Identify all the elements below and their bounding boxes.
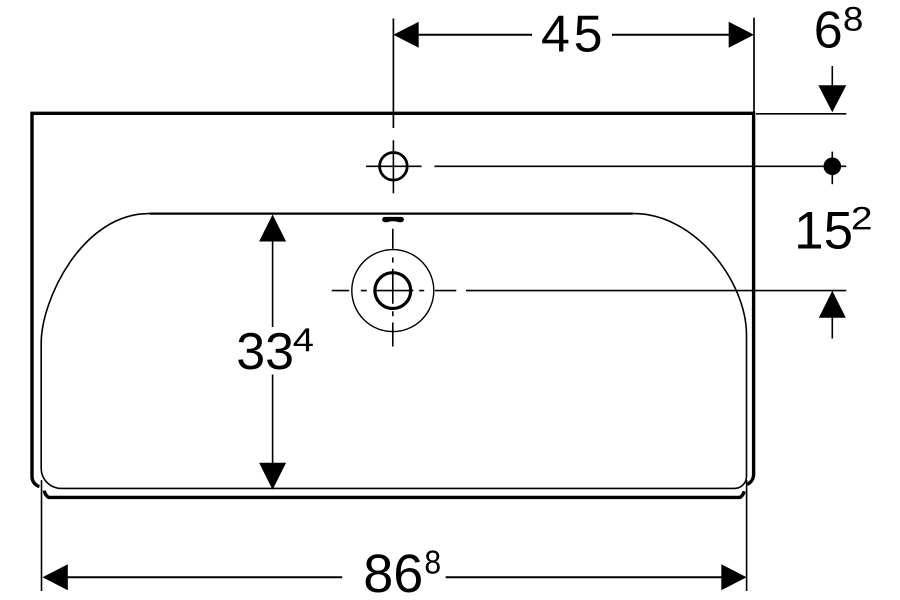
dim 33_4: down arrow — [259, 463, 286, 490]
dim 86_8: right extension line — [746, 480, 748, 591]
svg-text:15: 15 — [794, 201, 853, 260]
dim 6_8: arrow tail — [831, 66, 833, 87]
faucet hole — [380, 153, 408, 181]
basin outline — [41, 214, 746, 489]
sink outer rim: bottom edge — [44, 491, 744, 498]
drain centerline vertical — [392, 229, 394, 347]
faucet crosshair horizontal — [366, 165, 422, 167]
dim 86_8: left arrow — [43, 564, 68, 590]
dim 6_8: top extension line — [756, 113, 846, 115]
dim 33_4: up arrow — [259, 215, 286, 242]
drain outer circle — [352, 250, 434, 332]
faucet crosshair vertical — [392, 140, 394, 193]
dim 45: dimension line — [419, 34, 729, 36]
dim 15_2: dimension line through dot — [831, 152, 833, 185]
dim 86_8: dimension line — [68, 576, 722, 578]
svg-text:33: 33 — [236, 323, 294, 381]
svg-text:6: 6 — [814, 1, 843, 59]
dim 15_2: arrow tail — [831, 317, 833, 339]
drain centerline horizontal — [332, 290, 750, 292]
drain inner circle — [375, 273, 411, 309]
dim 45: right arrow — [729, 22, 754, 48]
dim 86_8: right arrow — [721, 564, 746, 590]
dim 45: right extension line — [753, 18, 755, 122]
dim 86_8: left extension line — [41, 480, 43, 591]
dim 15_2: dot endpoint — [824, 158, 842, 176]
dim 6_8: down arrow — [818, 85, 846, 112]
sink outer rim — [32, 113, 754, 486]
basin far rim (thicker top edge) — [150, 212, 633, 214]
dim 33_4: lower dimension line — [272, 375, 274, 464]
dim 33_4: upper dimension line — [272, 241, 274, 327]
svg-text:86: 86 — [363, 544, 423, 600]
svg-text:45: 45 — [541, 5, 606, 63]
overflow slot — [382, 217, 404, 222]
faucet hole centerline vertical (extension of dim 45) — [392, 19, 394, 129]
faucet extension line to right dot — [434, 165, 846, 167]
dim 45: left arrow — [393, 22, 418, 48]
dim 15_2: up arrow — [819, 291, 846, 318]
dim 15_2: bottom extension line — [750, 290, 846, 292]
